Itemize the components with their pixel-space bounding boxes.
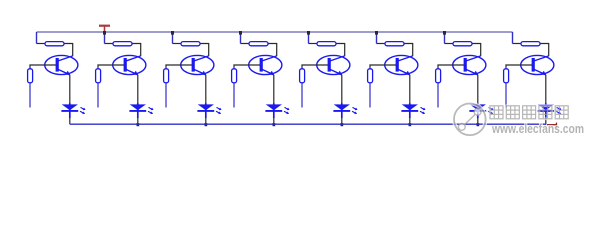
wire: bus drop to R6 <box>376 32 378 44</box>
wire: base input stub <box>165 83 167 108</box>
wire <box>404 44 413 57</box>
wire: +V supply bus (top) <box>37 31 513 33</box>
transistor Q7 (NPN) <box>453 55 486 75</box>
wire <box>241 43 250 45</box>
wire: LED cathode down <box>477 118 479 124</box>
resistor R8 (collector resistor) <box>521 42 540 46</box>
resistor R6 (collector resistor) <box>385 42 404 46</box>
wire: base input stub <box>369 83 371 108</box>
resistor R3 (collector resistor) <box>181 42 200 46</box>
wire: base wire <box>302 65 328 69</box>
wire: bus drop to R2 <box>104 32 106 44</box>
resistor R4 (collector resistor) <box>249 42 268 46</box>
wire: base input stub <box>505 83 507 108</box>
resistor R2 (collector resistor) <box>113 42 132 46</box>
wire: LED cathode down <box>137 118 139 124</box>
wire: emitter to LED <box>69 75 71 105</box>
resistor R11 (base resistor) <box>164 69 169 83</box>
wire <box>132 44 141 57</box>
wire: emitter to LED <box>273 75 275 105</box>
junction (top bus) <box>375 31 378 35</box>
watermark: elecfans logo circle <box>454 104 486 136</box>
resistor R15 (base resistor) <box>436 69 441 83</box>
wire: base wire <box>506 65 532 69</box>
wire: bus drop to R7 <box>444 32 446 44</box>
wire: LED cathode down <box>273 118 275 124</box>
resistor R10 (base resistor) <box>96 69 101 83</box>
LED D4 <box>265 103 289 118</box>
wire: base input stub <box>301 83 303 108</box>
wire <box>377 43 386 45</box>
wire: emitter to LED <box>477 75 479 105</box>
resistor R14 (base resistor) <box>368 69 373 83</box>
transistor Q6 (NPN) <box>385 55 418 75</box>
wire <box>200 44 209 57</box>
wire: bus drop to R4 <box>240 32 242 44</box>
wire: bus drop to R1 <box>36 32 38 44</box>
LED D6 <box>401 103 425 118</box>
transistor Q4 (NPN) <box>249 55 282 75</box>
junction (bottom bus) <box>341 123 344 126</box>
wire: base wire <box>30 65 56 69</box>
junction (top bus) <box>171 31 174 35</box>
junction (bottom bus) <box>409 123 412 126</box>
transistor Q3 (NPN) <box>181 55 214 75</box>
junction (top bus) <box>239 31 242 35</box>
wire: base input stub <box>29 83 31 108</box>
wire: emitter to LED <box>409 75 411 105</box>
resistor R7 (collector resistor) <box>453 42 472 46</box>
wire <box>513 43 522 45</box>
wire: emitter to LED <box>341 75 343 105</box>
resistor R9 (base resistor) <box>28 69 33 83</box>
wire: base wire <box>166 65 192 69</box>
wire: LED cathode down <box>205 118 207 124</box>
junction (top bus) <box>103 31 106 35</box>
junction (bottom bus) <box>137 123 140 126</box>
wire <box>105 43 114 45</box>
watermark text: 电子发烧友 (approximated) <box>490 106 568 119</box>
LED D1 <box>61 103 85 118</box>
junction (bottom bus) <box>205 123 208 126</box>
wire <box>268 44 277 57</box>
wire <box>445 43 454 45</box>
junction (bottom bus) <box>477 123 480 126</box>
wire: base wire <box>438 65 464 69</box>
junction (bottom bus) <box>273 123 276 126</box>
resistor R12 (base resistor) <box>232 69 237 83</box>
power/net terminal mark (red, bottom right) <box>547 123 557 129</box>
wire <box>540 44 549 57</box>
wire: LED cathode down <box>341 118 343 124</box>
junction (top bus) <box>307 31 310 35</box>
wire: base input stub <box>97 83 99 108</box>
transistor Q1 (NPN) <box>45 55 78 75</box>
wire <box>173 43 182 45</box>
resistor R5 (collector resistor) <box>317 42 336 46</box>
resistor R1 (collector resistor) <box>45 42 64 46</box>
wire: base input stub <box>233 83 235 108</box>
LED D2 <box>129 103 153 118</box>
junction (top bus) <box>443 31 446 35</box>
wire <box>37 43 46 45</box>
wire: base wire <box>234 65 260 69</box>
wire: base input stub <box>437 83 439 108</box>
wire <box>64 44 73 57</box>
transistor Q8 (NPN) <box>521 55 554 75</box>
resistor R16 (base resistor) <box>504 69 509 83</box>
wire: base wire <box>370 65 396 69</box>
transistor Q5 (NPN) <box>317 55 350 75</box>
wire: base wire <box>98 65 124 69</box>
wire <box>309 43 318 45</box>
wire: emitter to LED <box>205 75 207 105</box>
wire: bus drop to R3 <box>172 32 174 44</box>
wire: bus drop to R5 <box>308 32 310 44</box>
wire: LED return bus (bottom) <box>70 123 547 125</box>
LED D8 <box>537 103 561 118</box>
wire <box>336 44 345 57</box>
wire <box>472 44 481 57</box>
resistor R13 (base resistor) <box>300 69 305 83</box>
wire: LED cathode down <box>69 118 71 124</box>
svg-text:www.elecfans.com: www.elecfans.com <box>491 122 584 136</box>
wire: LED cathode down <box>545 118 547 124</box>
power VCC bar symbol <box>99 26 110 32</box>
wire: LED cathode down <box>409 118 411 124</box>
LED D7 <box>469 103 493 118</box>
wire: emitter to LED <box>545 75 547 105</box>
wire: bus drop to R8 <box>512 32 514 44</box>
transistor Q2 (NPN) <box>113 55 146 75</box>
LED D3 <box>197 103 221 118</box>
wire: emitter to LED <box>137 75 139 105</box>
LED D5 <box>333 103 357 118</box>
